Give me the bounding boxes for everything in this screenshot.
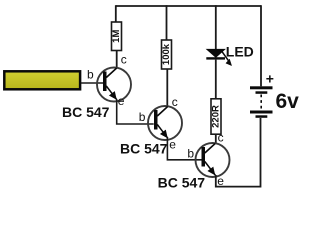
svg-text:b: b <box>139 110 146 124</box>
touch plate <box>4 71 80 89</box>
wire Q1 emitter to Q2 base <box>117 100 154 125</box>
battery B1 6v <box>250 86 273 118</box>
svg-text:220R: 220R <box>211 105 222 128</box>
svg-text:BC 547: BC 547 <box>158 175 206 191</box>
svg-text:6v: 6v <box>276 90 300 113</box>
svg-text:+: + <box>266 70 274 86</box>
wire R3 to Q3 collector <box>215 134 217 143</box>
svg-text:c: c <box>121 53 127 67</box>
wire from top rail down to resistor R2 <box>166 5 168 40</box>
svg-text:BC 547: BC 547 <box>62 104 110 120</box>
wire from top rail down to resistor R1 <box>115 5 117 22</box>
LED D1 <box>206 49 231 65</box>
svg-text:c: c <box>218 131 224 145</box>
wire R1 to Q1 collector <box>116 51 118 69</box>
transistor Q1 BC 547 <box>97 68 131 102</box>
wire R2 to Q2 collector <box>166 69 168 107</box>
svg-text:100k: 100k <box>161 43 172 65</box>
svg-text:e: e <box>169 137 176 151</box>
svg-text:b: b <box>187 146 194 160</box>
wire top rail down to battery positive <box>260 5 262 86</box>
transistor Q3 BC 547 <box>196 143 230 177</box>
svg-text:c: c <box>172 95 178 109</box>
resistor R1 1M <box>111 22 122 51</box>
svg-text:b: b <box>87 67 94 81</box>
svg-text:e: e <box>217 174 224 188</box>
wire top supply rail <box>116 5 261 7</box>
wire Q2 emitter to Q3 base <box>167 138 201 160</box>
wire from top rail down to LED anode <box>215 5 217 49</box>
wire touch plate to Q1 base <box>81 82 103 84</box>
wire Q3 emitter to battery negative <box>216 118 261 187</box>
transistor Q2 BC 547 <box>148 106 182 140</box>
resistor R2 100k <box>161 40 172 69</box>
svg-text:LED: LED <box>226 43 254 59</box>
resistor R3 220R <box>211 99 222 134</box>
svg-text:e: e <box>118 94 125 108</box>
wire LED cathode to resistor R3 <box>215 60 217 99</box>
svg-text:BC 547: BC 547 <box>120 140 168 156</box>
svg-text:1M: 1M <box>111 30 122 43</box>
